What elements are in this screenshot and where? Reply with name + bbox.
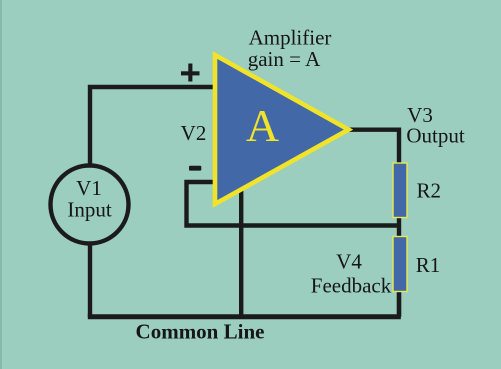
wire: minus stub and feedback line to R2/R1 junction bbox=[187, 182, 400, 226]
wire: R2 to R1 junction bbox=[397, 217, 401, 238]
resistor R2 bbox=[393, 163, 407, 218]
svg-text:A: A bbox=[246, 100, 279, 151]
svg-text:gain = A: gain = A bbox=[248, 47, 321, 71]
svg-text:V1: V1 bbox=[76, 176, 102, 200]
wire: common line bbox=[88, 314, 401, 319]
minus input symbol bbox=[189, 166, 201, 171]
left edge shade bbox=[0, 0, 2, 369]
svg-text:Feedback: Feedback bbox=[311, 274, 392, 298]
op-amp U1 triangle bbox=[215, 55, 349, 204]
svg-text:Common Line: Common Line bbox=[136, 320, 265, 344]
svg-text:Amplifier: Amplifier bbox=[249, 25, 332, 49]
source V1 circle bbox=[51, 166, 129, 244]
svg-text:V2: V2 bbox=[181, 121, 207, 145]
svg-text:R1: R1 bbox=[416, 253, 441, 277]
wire: below V1 bbox=[88, 245, 92, 317]
resistor R1 bbox=[393, 237, 407, 292]
wire: output from apex to R2 bbox=[349, 130, 399, 166]
svg-text:Output: Output bbox=[406, 124, 465, 148]
wire: V1 top to + input bbox=[90, 87, 215, 164]
svg-text:V4: V4 bbox=[336, 250, 362, 274]
svg-text:Input: Input bbox=[67, 198, 111, 222]
svg-text:R2: R2 bbox=[416, 179, 441, 203]
wire: amplifier common down to common line bbox=[239, 190, 243, 317]
wire: below R1 bbox=[397, 291, 402, 317]
plus input symbol bbox=[181, 64, 200, 82]
